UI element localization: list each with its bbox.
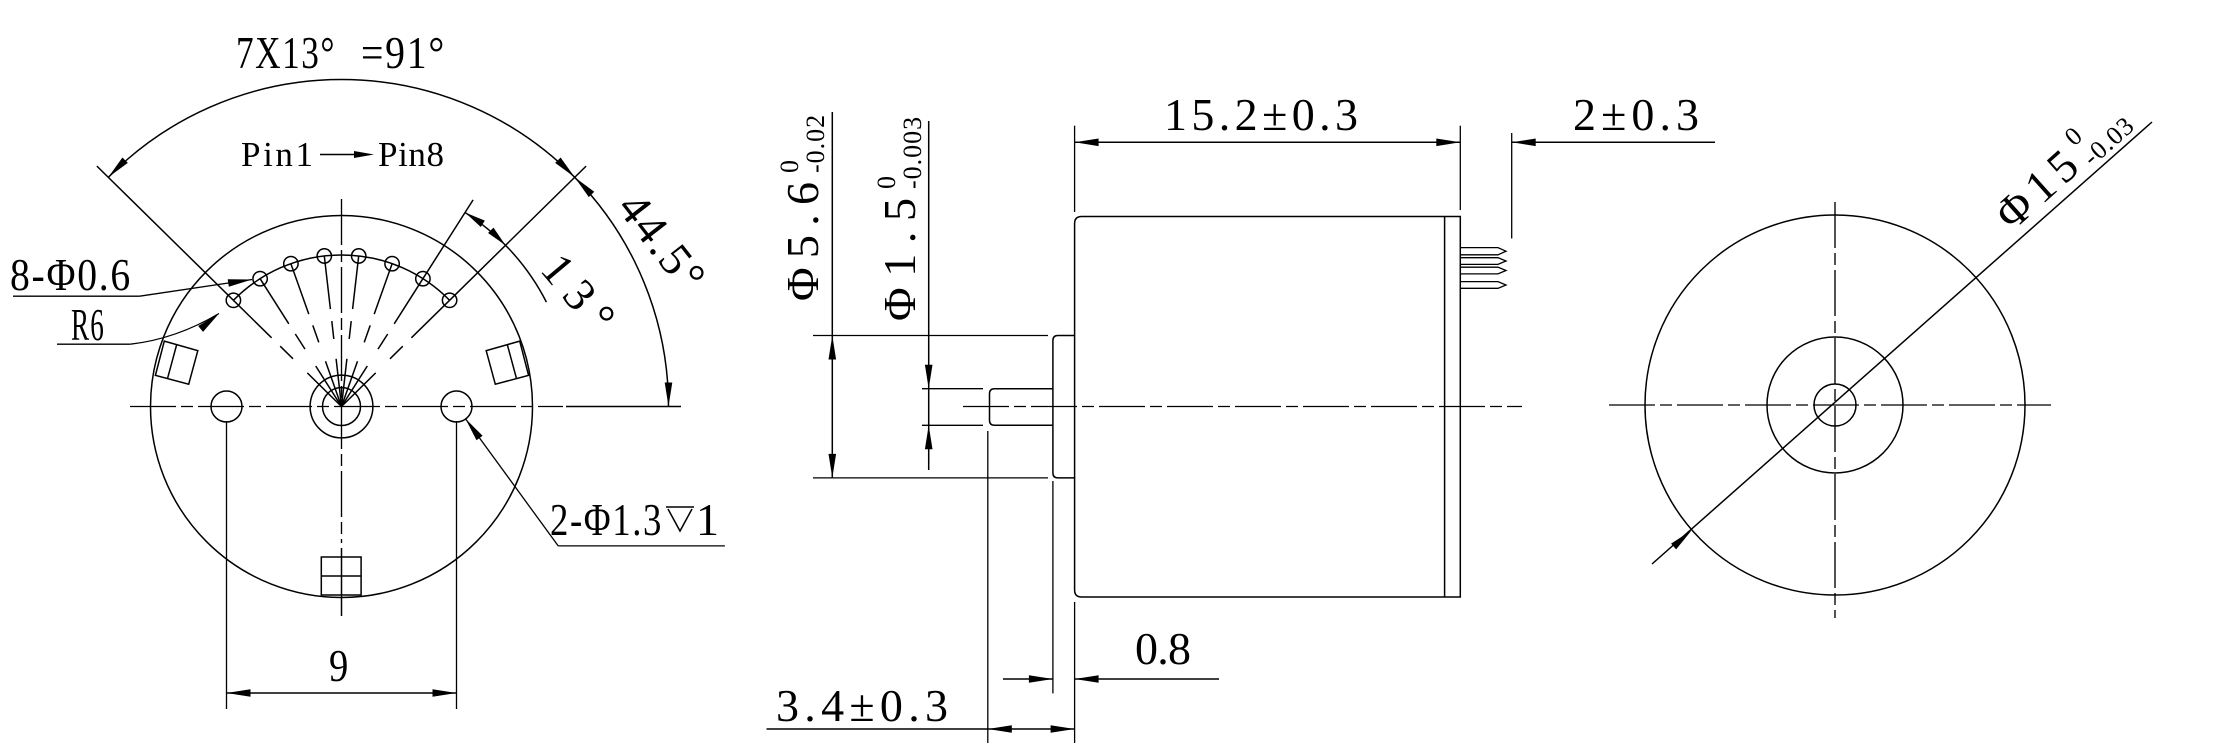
dim 0.8 <box>1052 481 1054 693</box>
svg-text:0: 0 <box>775 159 804 173</box>
pin 6 radial centerline <box>342 361 358 406</box>
svg-text:Φ1.5: Φ1.5 <box>874 196 925 321</box>
pin hole circle 8 <box>442 293 456 307</box>
dim phi 5.6 <box>813 335 1048 337</box>
dim 3.4 <box>987 431 989 743</box>
pin hole circle 7 <box>416 272 430 286</box>
91 degree dimension arc <box>108 80 574 178</box>
shaft side view <box>990 389 1053 426</box>
side view centerline <box>963 406 1522 408</box>
13 degree dimension arc <box>465 213 546 303</box>
dim phi 1.5 <box>922 388 983 390</box>
pin hole circle 2 <box>253 272 267 286</box>
phi 15 leader line <box>1652 122 2152 564</box>
svg-text:Pin8: Pin8 <box>378 135 446 174</box>
svg-text:=91°: =91° <box>361 27 446 78</box>
svg-text:2-Φ1.3: 2-Φ1.3 <box>550 494 663 545</box>
shaft boss circle <box>310 375 373 438</box>
pin hole circle 1 <box>226 293 240 307</box>
svg-text:0.8: 0.8 <box>1135 623 1193 674</box>
pin 7 radial centerline <box>342 366 368 407</box>
dim 2 <box>1511 133 1513 239</box>
pin 8 radial centerline <box>342 373 376 407</box>
svg-text:15.2±0.3: 15.2±0.3 <box>1164 89 1360 140</box>
svg-text:9: 9 <box>329 640 350 691</box>
9 dimension <box>226 421 228 709</box>
pin hole circle 4 <box>317 249 331 263</box>
pin 7 radial extension line <box>423 200 473 279</box>
svg-text:-0.003: -0.003 <box>898 116 927 189</box>
rear view vertical centerline <box>1834 202 1836 618</box>
horizontal centerline <box>130 406 563 408</box>
rotated text 13 deg <box>531 244 627 344</box>
pin 1 radial extension line <box>97 166 234 300</box>
pin 2 radial centerline <box>316 366 342 407</box>
svg-text:8-Φ0.6: 8-Φ0.6 <box>10 249 132 300</box>
svg-text:0: 0 <box>872 175 901 189</box>
svg-text:1: 1 <box>696 494 721 545</box>
motor front view: body outline circle <box>151 216 533 598</box>
rear view horizontal centerline <box>1609 404 2051 406</box>
pin 3 radial centerline <box>326 361 342 406</box>
rotated text phi 15 <box>1982 90 2140 240</box>
pin 4 radial centerline <box>336 359 341 407</box>
motor pins side view <box>1460 248 1506 255</box>
svg-text:-0.02: -0.02 <box>801 114 830 173</box>
44.5 degree dimension arc <box>575 177 669 406</box>
left tab <box>155 341 197 384</box>
svg-text:R6: R6 <box>71 299 105 350</box>
svg-text:2±0.3: 2±0.3 <box>1573 89 1701 140</box>
shaft bore circle <box>323 388 361 426</box>
leader 2-phi1.3 depth 1 <box>462 416 482 440</box>
rear view shaft circle <box>1814 384 1856 426</box>
svg-text:Pin1: Pin1 <box>241 135 315 174</box>
right tab <box>486 341 528 384</box>
end cap line <box>1444 217 1446 598</box>
pin 1 radial centerline <box>307 373 341 407</box>
pin 5 radial centerline <box>342 359 347 407</box>
pin hole circle 6 <box>385 257 399 271</box>
pin hole circle 5 <box>352 249 366 263</box>
svg-text:7X13°: 7X13° <box>236 27 336 78</box>
pin bolt-circle arc R6 <box>233 255 449 300</box>
rear view body circle <box>1645 215 2025 595</box>
rotated text 44.5 deg <box>608 183 717 303</box>
svg-text:Φ5.6: Φ5.6 <box>777 180 828 301</box>
pin 8 radial extension line <box>450 166 586 300</box>
dim 15.2 <box>1074 126 1076 212</box>
right mounting hole <box>441 391 472 422</box>
bottom square key <box>321 557 361 595</box>
pin hole circle 3 <box>284 257 298 271</box>
front boss side view <box>1053 336 1075 478</box>
motor body side view outline <box>1075 217 1461 598</box>
vertical centerline <box>341 199 343 543</box>
left mounting hole <box>211 391 242 422</box>
rear view boss circle <box>1767 337 1903 473</box>
